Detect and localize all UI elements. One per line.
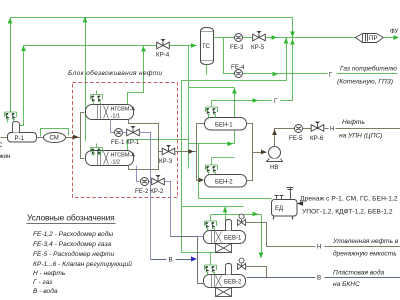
svg-text:Уловленная нефть в: Уловленная нефть в <box>332 238 399 245</box>
svg-text:БЕВ-2: БЕВ-2 <box>224 279 242 285</box>
wire FE-4 gas consumer branch <box>224 38 398 74</box>
node arrow up at corner x=23.5 <box>21 46 26 52</box>
wire KP-1 out to water riser <box>123 133 151 260</box>
node arrow right on BEN gas line <box>253 98 259 103</box>
wire gas y=252.5 from x=181 to BEV riser <box>182 252 226 254</box>
node arrow right after KP-3 <box>189 149 195 154</box>
wire riser x=234.5 from BEN gas to collector <box>234 88 236 144</box>
component BEV-1 standpipe <box>226 220 232 231</box>
valve KP-5 <box>253 31 266 41</box>
wire gas from NGSVM-1 riser x=143.5 to GS inlet line <box>128 46 144 105</box>
svg-text:КР-5: КР-5 <box>251 44 265 51</box>
flowmeter FE-4 <box>235 70 243 78</box>
node arrow down at x=261 <box>259 253 264 259</box>
relief valves SPPK BEV-1 <box>205 221 217 229</box>
svg-text:НВ: НВ <box>270 165 278 171</box>
wire produced water line with V label <box>247 277 400 279</box>
vessel NGSVM-A-1/2 <box>86 151 134 166</box>
svg-text:FE-2 КР-2: FE-2 КР-2 <box>135 188 164 195</box>
vessel P-1 <box>8 133 37 143</box>
svg-text:FE-1 КР-1: FE-1 КР-1 <box>111 139 140 146</box>
wire NGSVM-1 water out to FE-1 <box>111 120 115 133</box>
svg-text:FE-3: FE-3 <box>230 44 244 51</box>
wire long gas vertical x=181 <box>181 81 183 253</box>
node arrow right to flare unit <box>394 35 400 40</box>
wire gas collector y=80.5 from block to riser <box>182 80 287 82</box>
svg-text:-1/1: -1/1 <box>111 113 120 119</box>
svg-text:Блок обезвоживания нефти: Блок обезвоживания нефти <box>68 69 162 77</box>
svg-text:ожин: ожин <box>0 153 10 160</box>
wire sppk riser BEN-1 to gas line <box>209 101 216 118</box>
flowmeter FE-5 <box>295 125 303 133</box>
wire sppk riser BEV-2 <box>208 253 215 275</box>
component P-1 dome nozzle <box>13 122 20 133</box>
wire CM to block inlet <box>66 137 81 139</box>
svg-text:-1/2: -1/2 <box>111 159 120 165</box>
node arrow right into pump <box>261 150 267 155</box>
node arrow up at left end of relief header <box>8 18 13 24</box>
wire BEN outlets to pump suction <box>247 124 267 181</box>
svg-text:КР-4: КР-4 <box>156 52 170 59</box>
wire drop to BEV-2 standpipe x=261 <box>261 215 263 258</box>
wire gas line y=206.3 over BEV <box>182 206 244 208</box>
wire FE-5 to KP-6 <box>303 128 312 130</box>
wire KP-3 out to BEN vessels <box>176 124 205 181</box>
svg-text:БЕВ-1: БЕВ-1 <box>224 235 242 241</box>
svg-text:Дренаж с Р-1, СМ, ГС, БЕН-1,2: Дренаж с Р-1, СМ, ГС, БЕН-1,2 <box>300 196 398 203</box>
node arrow up at x=234.5 <box>232 88 237 94</box>
wire BEN gas line y=100.5 to flare riser <box>212 38 293 101</box>
node arrow right on y=214 <box>253 212 259 217</box>
svg-text:FE-4: FE-4 <box>231 64 245 71</box>
node arrow up at x=85 joining header <box>83 17 88 23</box>
wire flare line after PR to FU <box>384 37 398 39</box>
node arrow right on flare line <box>272 35 278 40</box>
wire drain line x=198 to ED <box>199 144 272 199</box>
valve KP-4 <box>157 39 170 49</box>
vessel BEV-2 <box>204 275 246 288</box>
svg-text:Н: Н <box>317 244 321 251</box>
block border dashed (oil dehydration block) <box>73 83 178 198</box>
wire water feed line with V label to BEV-2 <box>151 259 192 261</box>
svg-text:дренажную емкость: дренажную емкость <box>333 250 397 258</box>
node arrow up at x=225 top <box>223 207 228 213</box>
svg-text:БЕН-1: БЕН-1 <box>215 122 233 128</box>
wire relief gas header y=17 <box>11 18 293 113</box>
svg-text:Газ потребителю: Газ потребителю <box>340 64 397 72</box>
relief valves SPPK NGSVM-2 <box>91 148 103 156</box>
component BEV-2 standpipe <box>226 264 232 275</box>
wire trapped oil line with N label <box>267 246 400 248</box>
node arrow right into BEN-2 <box>199 178 205 183</box>
relief valves SPPK NGSVM-1 <box>91 95 103 103</box>
wire sppk riser BEN-2 and gas to y157 <box>209 158 235 175</box>
node arrow up at pump discharge <box>272 130 277 136</box>
vessel BEN-2 <box>205 175 247 188</box>
svg-text:КР-6: КР-6 <box>310 135 324 142</box>
wire pump discharge to FE-5 <box>275 129 295 147</box>
node gas line label G <box>328 69 336 77</box>
wire NGSVM-2 water out to FE-2 <box>137 166 140 182</box>
wire CM bypass green <box>41 129 69 137</box>
svg-text:НГСВМ-А: НГСВМ-А <box>111 106 136 112</box>
component ED top nozzles <box>275 196 284 200</box>
vessel BEV-1 <box>204 231 246 244</box>
wire inlet manifold to both NGSVM vessels <box>81 113 85 159</box>
wire P-1 to CM mixer <box>37 137 45 139</box>
svg-text:Р-1: Р-1 <box>15 136 25 142</box>
wire riser x=286 from consumer line to flare line <box>286 38 288 81</box>
vessel NGSVM-A-1/1 <box>86 105 134 120</box>
wire long gas vertical x=187 <box>188 46 190 169</box>
wire GS bottom drain stub <box>206 65 208 75</box>
svg-text:Пластовая вода: Пластовая вода <box>333 268 384 276</box>
wire feed line into P-1 <box>1 137 8 139</box>
svg-text:Н: Н <box>330 126 334 133</box>
relief valves SPPK BEN-1 <box>206 107 218 115</box>
node arrow up at x=292.5 <box>290 39 295 45</box>
vessel ED (drain tank) <box>272 200 298 220</box>
svg-text:СМ: СМ <box>50 135 59 141</box>
svg-text:Г - газ: Г - газ <box>33 279 52 286</box>
node arrow up at x=225 y=249 <box>223 247 228 253</box>
svg-text:В - вода: В - вода <box>33 287 58 295</box>
flowmeter FE-1 <box>115 129 123 137</box>
svg-text:FE-5 - Расходомер нефти: FE-5 - Расходомер нефти <box>33 250 114 258</box>
valve KP-3 <box>162 145 175 155</box>
node blue arrow right <box>191 256 197 261</box>
component ED vent pipe <box>287 188 294 200</box>
wire gas line y=143.8 to BEN riser <box>189 143 235 145</box>
wire gas line from P-1 to GS y=45.5 <box>20 46 197 126</box>
valve with handwheel BEV-2 <box>238 258 246 270</box>
wire KP-2 out down to BEV-1 <box>149 182 204 237</box>
flowmeter FE-2 <box>141 178 149 186</box>
wire sppk risers NGSVM-1 <box>94 91 101 105</box>
wire gray vertical x=197 BEV inlets <box>171 237 204 284</box>
svg-text:FE-1,2 - Расходомер воды: FE-1,2 - Расходомер воды <box>33 230 113 238</box>
svg-text:КР-3: КР-3 <box>159 158 173 165</box>
svg-text:Условные обозначения: Условные обозначения <box>27 213 114 223</box>
wire sppk connections P-1 <box>8 109 14 123</box>
svg-text:FE-5: FE-5 <box>289 135 303 142</box>
svg-text:КР-1...6 - Клапан регулирующий: КР-1...6 - Клапан регулирующий <box>33 260 132 268</box>
vessel BEN-1 <box>205 118 247 131</box>
wire relief riser from oil block x=85 <box>85 18 87 142</box>
mixer CM <box>44 133 66 143</box>
wire BEV-2 oil out to water line <box>246 267 267 278</box>
instrument PR (flame arrestor) <box>356 34 384 43</box>
valve KP-1 <box>127 126 140 136</box>
component BEV-2 sand box <box>216 288 232 297</box>
wire oil export line with N label <box>325 128 400 130</box>
node gas label G on BEN line <box>272 96 280 104</box>
node arrow up at x=143.5 <box>141 46 146 52</box>
valve KP-6 <box>311 122 324 132</box>
svg-text:(Котельную, ГПЗ): (Котельную, ГПЗ) <box>337 78 393 85</box>
node arrow right into GS inlet <box>191 43 197 48</box>
valve with handwheel BEV-1 <box>238 214 246 226</box>
svg-text:FE-3,4 - Расходомер газа: FE-3,4 - Расходомер газа <box>33 240 111 248</box>
relief valves SPPK BEN-2 <box>206 165 218 173</box>
wire sppk risers NGSVM-2 <box>94 144 101 156</box>
svg-text:ФУ: ФУ <box>390 28 398 35</box>
svg-text:НГСВМ-А: НГСВМ-А <box>111 152 136 158</box>
svg-text:В: В <box>317 275 321 282</box>
node arrow right into block <box>73 135 79 140</box>
component BEV-1 sand box <box>216 244 232 253</box>
svg-text:УПОГ-1,2, КДФТ-1,2, БЕВ-1,2: УПОГ-1,2, КДФТ-1,2, БЕВ-1,2 <box>302 209 393 216</box>
svg-text:ПР: ПР <box>369 35 378 42</box>
wire ED right nozzle with arrow <box>298 203 304 205</box>
vessel GS (gas separator column) <box>201 28 214 65</box>
pump NV <box>267 147 283 162</box>
svg-text:на БКНС: на БКНС <box>333 281 360 288</box>
svg-text:ЕД: ЕД <box>275 206 283 212</box>
node arrow up at x=286 <box>284 38 289 44</box>
wire riser x=225 with up arrow <box>225 207 227 253</box>
wire NGSVM oil lines to KP-3 <box>129 120 163 170</box>
node arrow right on y=143.5 <box>228 141 234 146</box>
svg-text:В: В <box>169 257 173 264</box>
relief valves SPPK P-1 <box>5 112 17 120</box>
wire gas line y=214 to BEV-2 drop <box>211 214 262 216</box>
flowmeter FE-3 <box>235 34 243 42</box>
wire gas collector y=87 <box>189 87 235 89</box>
wire flare gas line y=37.5 from GS to PR <box>214 37 356 39</box>
svg-text:БЕН-2: БЕН-2 <box>215 179 233 185</box>
wire gas from NGSVM-2 to x=188 riser <box>128 140 189 151</box>
svg-text:на УПН (ЦПС): на УПН (ЦПС) <box>339 133 382 140</box>
wire sppk riser BEV-1 <box>208 215 215 231</box>
valve KP-2 <box>152 175 165 185</box>
wire BEV-1 oil to drain line <box>246 223 267 247</box>
svg-text:Нефть: Нефть <box>342 119 365 126</box>
node arrow right on consumer line <box>273 72 279 77</box>
relief valves SPPK BEV-2 <box>205 265 217 273</box>
node arrow down at x=292.5 joining flare line <box>290 32 295 38</box>
svg-text:ГС: ГС <box>203 44 211 50</box>
svg-text:Н - нефть: Н - нефть <box>33 270 66 277</box>
